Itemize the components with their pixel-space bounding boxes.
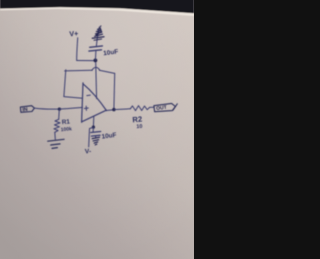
wire feedback crossover hump <box>92 67 100 70</box>
capacitor C2 upper lead <box>92 127 94 132</box>
port IN box <box>20 106 34 113</box>
wire feedback top <box>65 69 93 72</box>
wire feedback left vertical <box>64 70 66 97</box>
capacitor C2 lower lead <box>95 136 97 138</box>
wire V+ supply pin <box>95 62 98 98</box>
wire R2 to OUT <box>150 106 154 108</box>
port OUT box <box>154 103 176 111</box>
resistor R1 upper lead <box>58 109 61 119</box>
node output junction <box>112 108 115 111</box>
wire V- branch <box>89 127 94 146</box>
node junction V+ rail <box>94 59 98 63</box>
resistor R2 zigzag <box>130 106 149 111</box>
ground top (hatched) <box>92 26 104 40</box>
bright paper top edge <box>0 7 194 16</box>
op-amp U1 <box>82 83 107 123</box>
wire V- supply pin <box>92 116 94 127</box>
op-amp minus sign <box>87 94 91 97</box>
ground below R1 <box>48 139 64 148</box>
capacitor C1 plates <box>89 46 103 51</box>
wire V+ rail <box>77 60 96 62</box>
wire feedback right vertical <box>113 73 116 109</box>
wire inverting input <box>64 97 83 99</box>
svg-text:V-: V- <box>85 148 92 155</box>
capacitor C1 lower lead <box>94 51 97 61</box>
ground below C2 (hatched) <box>92 137 99 145</box>
paper background <box>0 0 194 259</box>
svg-text:IN: IN <box>22 107 28 114</box>
svg-text:100k: 100k <box>60 126 72 133</box>
node input junction <box>58 108 61 111</box>
wire feedback top right <box>99 70 114 73</box>
svg-text:R1: R1 <box>62 118 71 126</box>
dark table band at top of photo <box>0 0 194 16</box>
op-amp plus sign <box>84 106 88 110</box>
wire input to plus <box>59 107 82 109</box>
capacitor C2 plates <box>91 132 101 137</box>
wire input left <box>35 108 60 109</box>
svg-text:10: 10 <box>136 124 142 130</box>
svg-text:V+: V+ <box>69 29 79 39</box>
node V- junction <box>92 126 95 129</box>
wire V+ drop <box>77 38 78 61</box>
wire output to R2 <box>114 108 130 111</box>
svg-text:OUT: OUT <box>156 105 167 112</box>
resistor R1 lower lead <box>54 132 57 139</box>
capacitor C1 upper lead <box>96 29 98 46</box>
resistor R1 zigzag <box>54 119 60 132</box>
wire output <box>106 109 114 112</box>
